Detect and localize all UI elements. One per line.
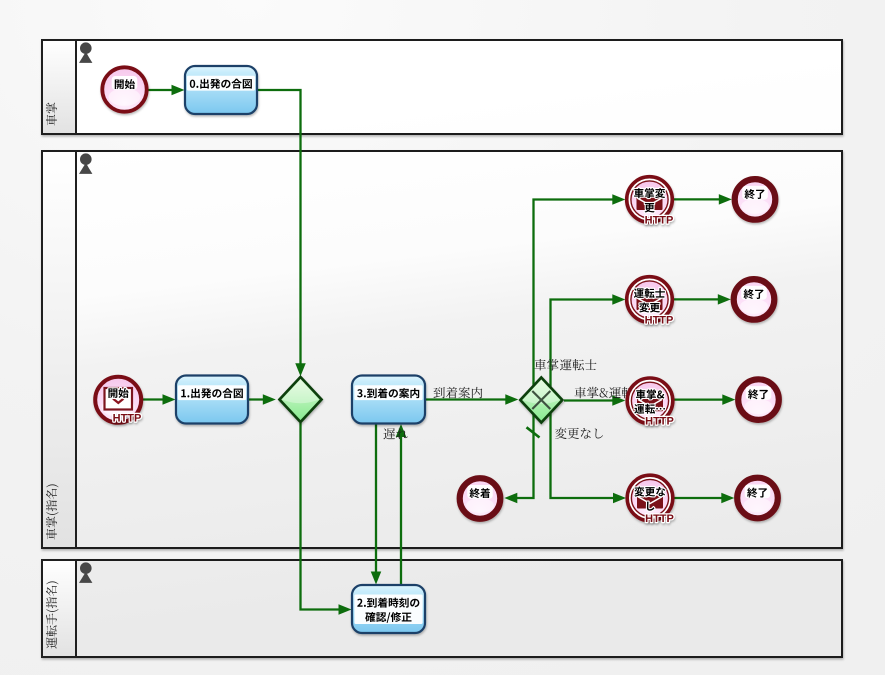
svg-text:HTTP: HTTP [645, 416, 674, 428]
svg-text:HTTP: HTTP [645, 314, 674, 326]
svg-text:HTTP: HTTP [645, 214, 674, 226]
svg-text:HTTP: HTTP [645, 513, 674, 525]
svg-text:HTTP: HTTP [113, 412, 142, 424]
